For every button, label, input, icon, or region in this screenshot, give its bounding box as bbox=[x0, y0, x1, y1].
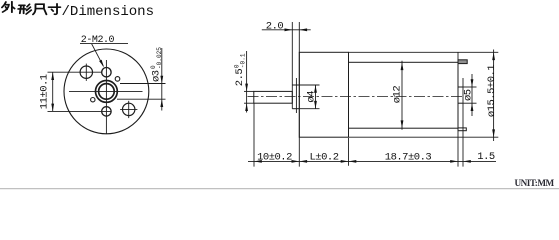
side view: output shaft bbox=[254, 91, 292, 103]
dimension ø3 0/-0.025: label bbox=[150, 47, 163, 82]
svg-text:10±0.2: 10±0.2 bbox=[257, 151, 292, 163]
svg-text:L±0.2: L±0.2 bbox=[309, 151, 338, 163]
bottom dimension chain: arrows bbox=[254, 160, 262, 163]
face view: screw hole M2 top bbox=[102, 68, 111, 77]
face view: mounting hole right with cross bbox=[123, 103, 135, 115]
svg-text:ø12: ø12 bbox=[392, 86, 404, 104]
side view: front bearing boss bbox=[291, 22, 293, 109]
face view: mounting hole left with cross bbox=[80, 66, 92, 78]
dimension ø3 0/-0.025: dimension line with outside arrows bbox=[161, 48, 163, 111]
face view: small pin hole upper-right bbox=[115, 77, 120, 82]
dimension 2.5 0/-0.1: dimension line with outside arrows bbox=[246, 51, 248, 113]
side view: terminal tab bottom bbox=[458, 128, 466, 131]
svg-text:2-M2.0: 2-M2.0 bbox=[81, 35, 115, 46]
dimension ø3 0/-0.025: extension lines bbox=[120, 83, 166, 85]
face view: vertical centerline bbox=[105, 60, 107, 134]
svg-text:ø15.5±0.1: ø15.5±0.1 bbox=[486, 65, 498, 117]
side view: terminal tab top bbox=[458, 60, 467, 64]
svg-text:-0.1: -0.1 bbox=[239, 53, 246, 68]
svg-text:UNIT:MM: UNIT:MM bbox=[515, 178, 555, 188]
dimension 11±0.1: extension lines bbox=[48, 71, 102, 73]
svg-text:1.5: 1.5 bbox=[477, 151, 495, 163]
dimension ø4: extension lines bbox=[299, 84, 319, 86]
face view: horizontal centerline bbox=[69, 90, 143, 92]
title: 外形尺寸/Dimensions bbox=[2, 2, 60, 15]
svg-text:2.5: 2.5 bbox=[234, 69, 246, 87]
face view: small pin hole lower-left bbox=[91, 98, 95, 102]
side view: center axis line bbox=[248, 95, 465, 97]
svg-text:18.7±0.3: 18.7±0.3 bbox=[385, 151, 432, 163]
dimension 2.5 0/-0.1: extension lines bbox=[244, 90, 254, 92]
dimension ø5: extension lines bbox=[463, 86, 477, 88]
dimension 2.5 0/-0.1: label bbox=[233, 53, 246, 86]
side view: rear bearing boss bbox=[458, 86, 463, 88]
face view: gearbox boss circle o4 bbox=[96, 81, 118, 103]
dimension ø4: dimension line with arrows bbox=[315, 85, 317, 109]
side view: motor body bbox=[349, 62, 459, 128]
dimension ø15.5±0.1: dimension line with arrows bbox=[493, 50, 495, 142]
side view: gearbox case bbox=[299, 52, 348, 137]
footer: table rule bbox=[0, 188, 559, 190]
dimension 11±0.1: dimension line with arrows bbox=[52, 72, 54, 111]
svg-text:2.0: 2.0 bbox=[266, 20, 284, 32]
svg-text:-0.025: -0.025 bbox=[156, 47, 163, 69]
svg-text:11±0.1: 11±0.1 bbox=[38, 74, 50, 109]
face view: motor body circle bbox=[64, 49, 149, 134]
face view: shaft circle o3 bbox=[99, 84, 115, 100]
dimension ø12: dimension line with arrows bbox=[401, 61, 403, 130]
bottom dimension chain: extension lines bbox=[253, 103, 255, 166]
svg-text:ø3: ø3 bbox=[150, 70, 162, 82]
svg-text:ø4: ø4 bbox=[306, 91, 318, 103]
dimension ø5: dimension line with outside arrows bbox=[471, 74, 473, 116]
dimension ø15.5±0.1: extension lines bbox=[349, 51, 499, 53]
bottom dimension chain: dimension line bbox=[248, 160, 496, 162]
svg-text:/Dimensions: /Dimensions bbox=[62, 4, 154, 20]
svg-text:ø5: ø5 bbox=[462, 89, 474, 101]
face view: screw hole M2 bottom bbox=[102, 107, 111, 116]
